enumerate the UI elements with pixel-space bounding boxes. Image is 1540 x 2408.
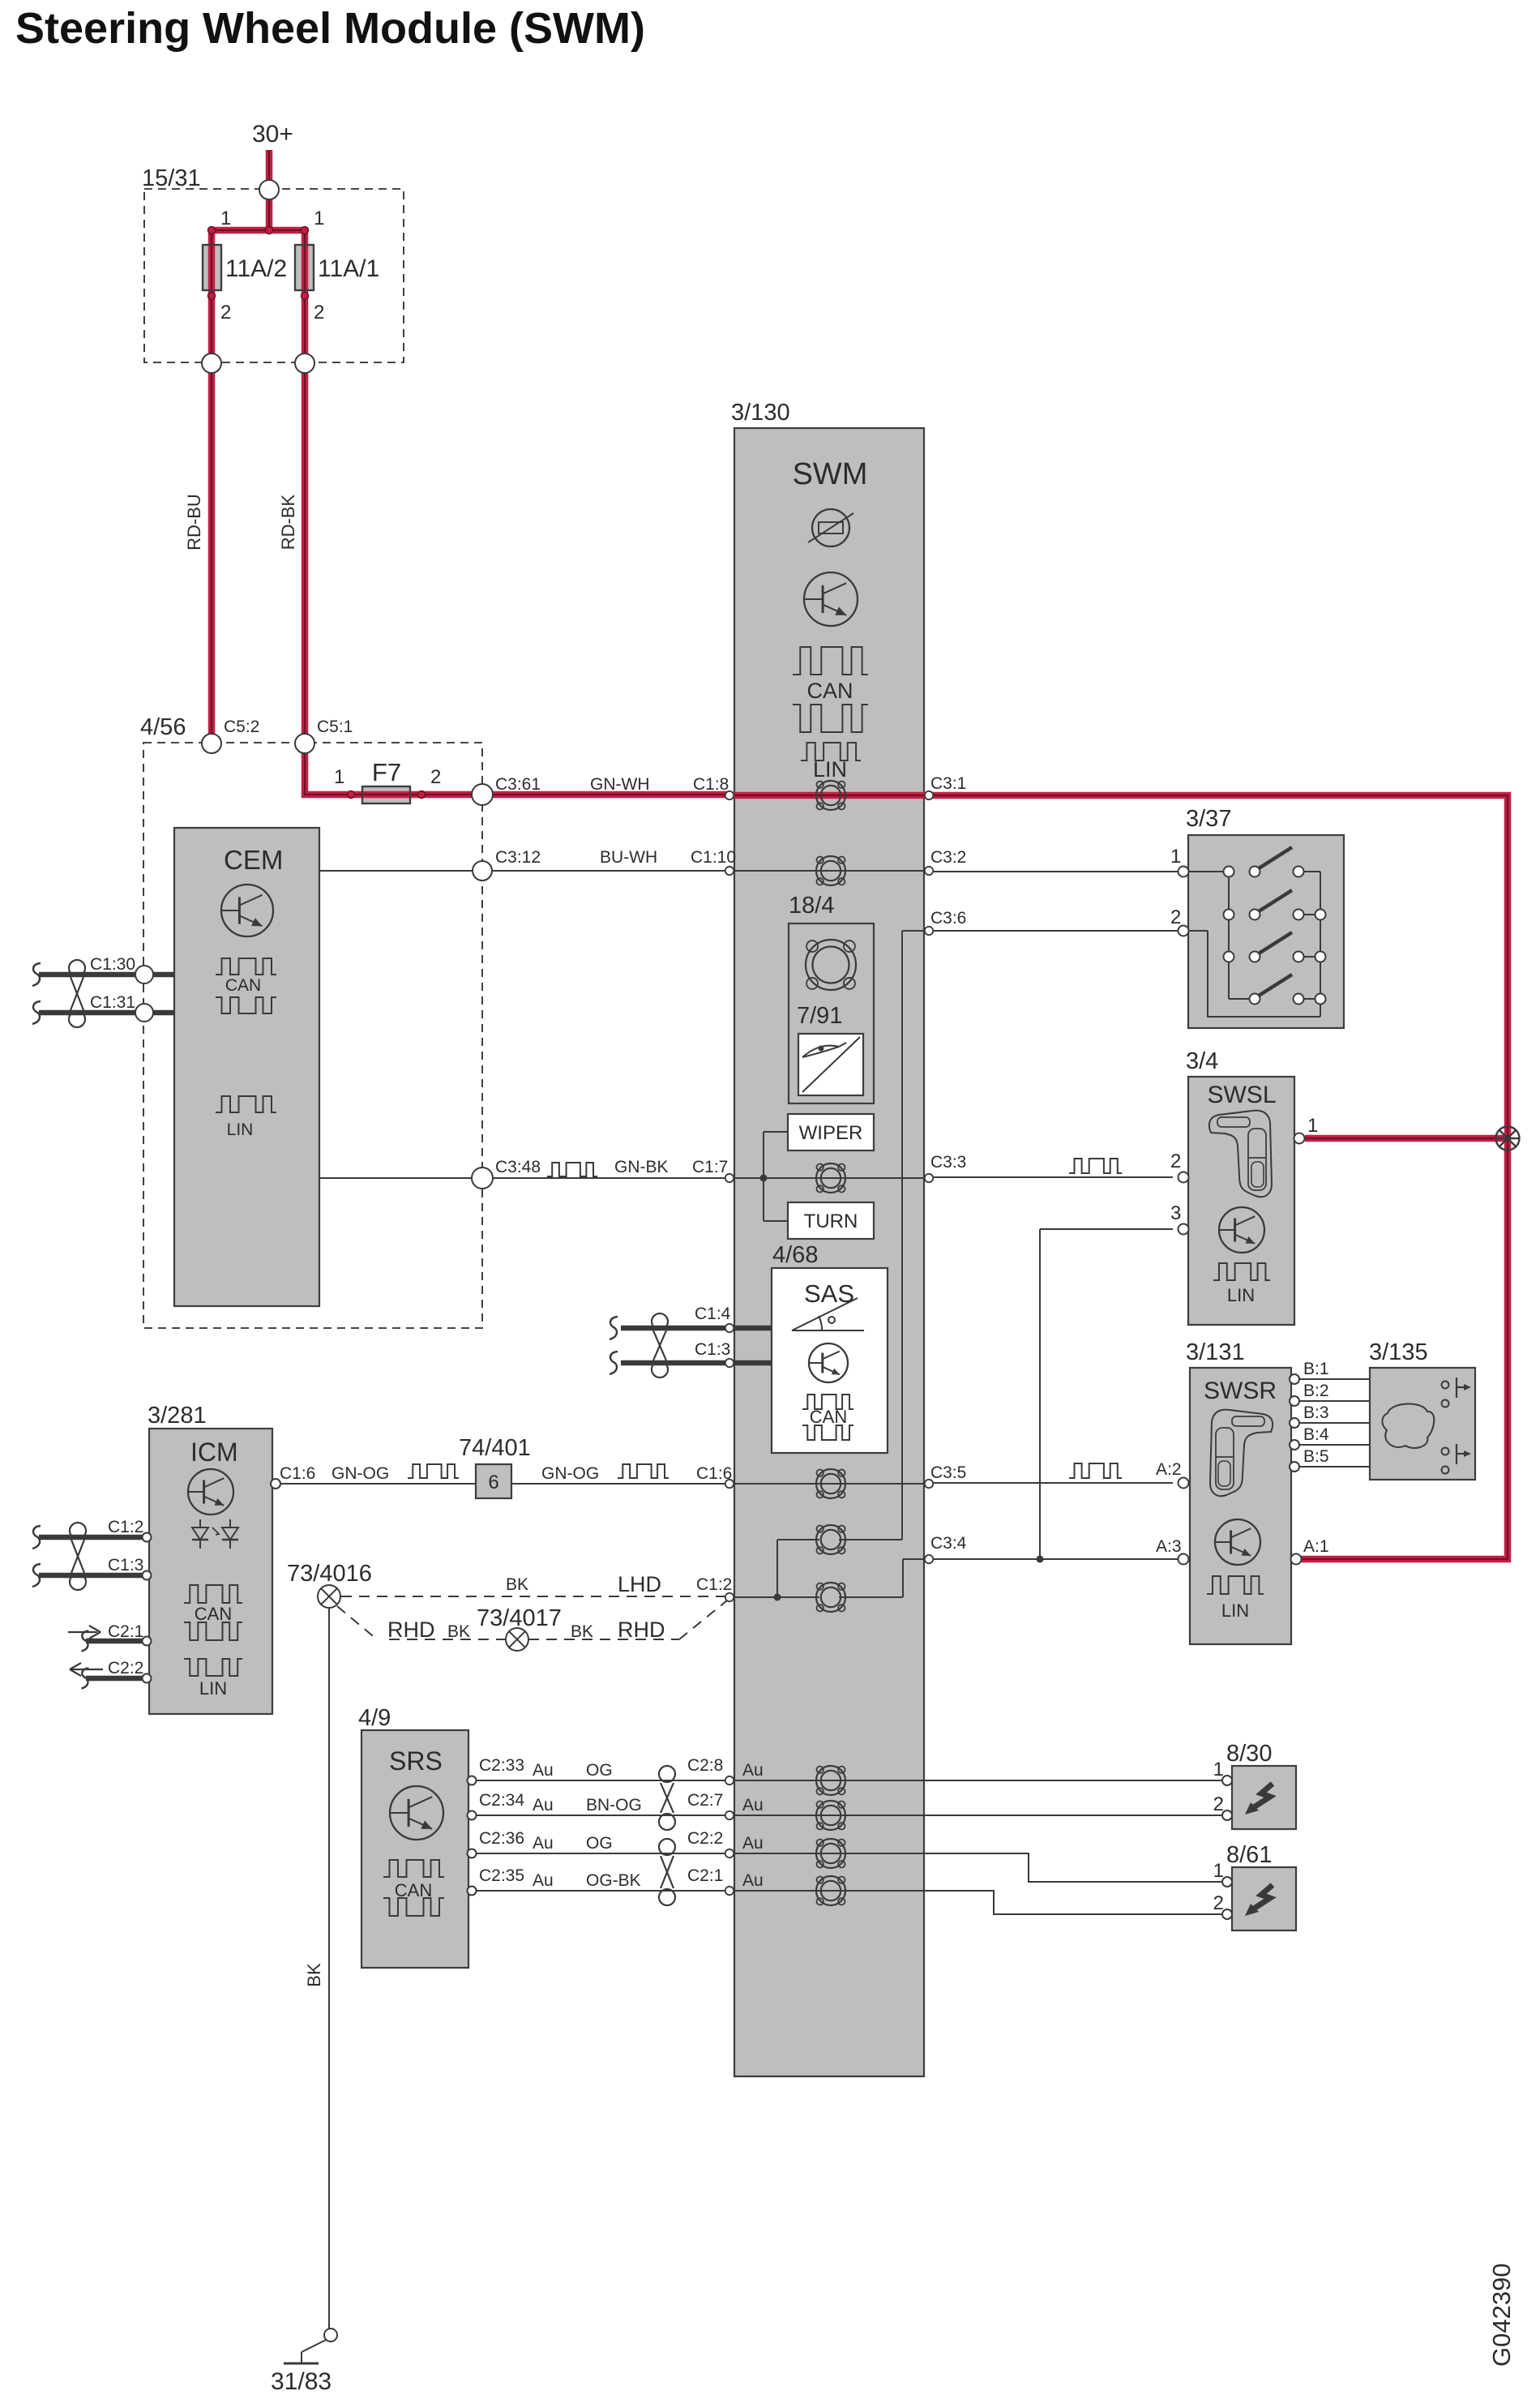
svg-text:C1:2: C1:2 [696,1575,732,1594]
svg-text:C3:1: C3:1 [930,774,966,793]
svg-text:GN-OG: GN-OG [332,1464,389,1483]
svg-text:LIN: LIN [199,1678,227,1699]
svg-text:RD-BU: RD-BU [184,494,204,551]
svg-text:2: 2 [220,302,231,323]
svg-text:B:3: B:3 [1303,1403,1329,1422]
svg-text:3/281: 3/281 [148,1403,207,1429]
svg-text:C5:1: C5:1 [317,718,353,736]
svg-text:C2:1: C2:1 [108,1622,143,1641]
svg-text:CAN: CAN [810,1407,847,1427]
svg-text:1: 1 [220,208,231,229]
svg-text:LIN: LIN [1227,1285,1255,1305]
svg-text:CAN: CAN [225,976,261,995]
svg-text:OG: OG [586,1834,613,1853]
svg-text:OG: OG [586,1761,613,1780]
svg-text:LHD: LHD [618,1572,661,1596]
svg-text:OG-BK: OG-BK [586,1871,641,1890]
svg-text:CAN: CAN [195,1604,232,1624]
svg-text:8/30: 8/30 [1226,1741,1272,1767]
svg-text:C3:4: C3:4 [930,1534,967,1553]
svg-text:3/130: 3/130 [731,400,790,426]
svg-text:C3:3: C3:3 [930,1153,966,1172]
svg-text:Steering Wheel Module (SWM): Steering Wheel Module (SWM) [15,4,645,53]
svg-text:SWM: SWM [793,457,868,491]
svg-text:C3:2: C3:2 [930,848,966,867]
svg-text:Au: Au [533,1796,554,1815]
svg-text:SAS: SAS [804,1279,854,1308]
svg-text:CEM: CEM [224,845,283,875]
svg-text:Au: Au [742,1834,764,1853]
svg-text:SWSL: SWSL [1207,1082,1276,1108]
svg-text:C3:12: C3:12 [495,848,541,867]
svg-text:3/37: 3/37 [1186,806,1231,832]
svg-text:C1:31: C1:31 [90,993,135,1012]
svg-text:C1:3: C1:3 [695,1340,730,1359]
svg-text:C3:6: C3:6 [930,909,966,928]
svg-text:A:3: A:3 [1156,1537,1182,1556]
svg-text:Au: Au [533,1871,554,1890]
svg-text:Au: Au [742,1796,764,1815]
svg-text:18/4: 18/4 [789,893,834,919]
svg-text:C2:36: C2:36 [479,1829,524,1848]
svg-text:1: 1 [314,208,324,229]
svg-text:3: 3 [1170,1202,1181,1224]
svg-text:2: 2 [1170,1150,1181,1172]
svg-text:BK: BK [571,1622,593,1641]
svg-text:74/401: 74/401 [459,1435,531,1461]
svg-text:RHD: RHD [387,1617,435,1642]
svg-text:30+: 30+ [252,121,293,148]
svg-text:C2:35: C2:35 [479,1866,524,1885]
svg-text:Au: Au [533,1834,554,1853]
svg-text:GN-OG: GN-OG [541,1464,599,1483]
svg-text:Au: Au [742,1871,764,1890]
svg-text:C1:4: C1:4 [695,1305,731,1323]
svg-text:C2:33: C2:33 [479,1756,524,1775]
svg-text:G042390: G042390 [1487,2263,1516,2367]
svg-text:F7: F7 [372,758,401,786]
svg-text:B:2: B:2 [1303,1382,1329,1400]
svg-text:BK: BK [304,1963,324,1987]
svg-text:73/4016: 73/4016 [287,1561,372,1587]
svg-text:BN-OG: BN-OG [586,1796,642,1815]
svg-text:BU-WH: BU-WH [600,848,657,867]
svg-text:C1:7: C1:7 [692,1158,728,1176]
svg-text:B:4: B:4 [1303,1425,1329,1444]
svg-text:1: 1 [1170,846,1181,868]
svg-text:1: 1 [334,766,344,788]
svg-text:2: 2 [1213,1793,1224,1815]
svg-text:GN-BK: GN-BK [614,1158,669,1176]
svg-text:C1:6: C1:6 [280,1464,315,1483]
svg-text:LIN: LIN [813,757,847,782]
svg-text:31/83: 31/83 [271,2368,332,2395]
svg-text:B:1: B:1 [1303,1360,1329,1378]
svg-text:11A/1: 11A/1 [318,255,379,282]
svg-text:1: 1 [1307,1115,1318,1137]
svg-text:CAN: CAN [806,679,853,703]
svg-text:2: 2 [314,302,324,323]
svg-text:C3:48: C3:48 [495,1158,541,1176]
svg-text:6: 6 [488,1472,498,1493]
svg-text:C3:61: C3:61 [495,775,541,794]
svg-text:3/4: 3/4 [1186,1048,1218,1074]
svg-text:RD-BK: RD-BK [278,494,298,550]
svg-text:C1:10: C1:10 [691,848,736,867]
svg-text:BK: BK [506,1575,528,1594]
svg-text:2: 2 [1170,906,1181,928]
svg-text:C1:30: C1:30 [90,955,135,974]
svg-text:Au: Au [533,1761,554,1780]
svg-text:C1:2: C1:2 [108,1518,143,1536]
svg-text:2: 2 [1213,1892,1224,1914]
svg-text:SWSR: SWSR [1204,1378,1277,1404]
svg-text:15/31: 15/31 [142,165,201,191]
svg-text:1: 1 [1213,1860,1224,1882]
svg-text:LIN: LIN [1221,1600,1249,1621]
svg-text:3/131: 3/131 [1186,1339,1245,1365]
svg-text:GN-WH: GN-WH [590,775,649,794]
svg-text:SRS: SRS [389,1746,443,1776]
svg-text:WIPER: WIPER [799,1122,863,1144]
svg-text:4/9: 4/9 [358,1705,391,1731]
svg-text:A:1: A:1 [1303,1537,1329,1556]
svg-text:4/56: 4/56 [140,714,186,740]
svg-text:7/91: 7/91 [797,1003,842,1029]
svg-text:ICM: ICM [190,1438,238,1467]
svg-text:BK: BK [447,1622,470,1641]
svg-text:C2:2: C2:2 [108,1659,143,1677]
svg-text:73/4017: 73/4017 [477,1605,562,1631]
svg-text:3/135: 3/135 [1369,1339,1428,1365]
svg-text:LIN: LIN [227,1120,254,1139]
svg-text:CAN: CAN [395,1880,432,1900]
svg-text:2: 2 [430,766,441,788]
svg-text:C2:1: C2:1 [687,1866,723,1885]
svg-text:C2:2: C2:2 [687,1829,723,1848]
svg-text:8/61: 8/61 [1226,1842,1272,1868]
svg-text:Au: Au [742,1761,764,1780]
svg-text:RHD: RHD [618,1617,665,1642]
svg-text:B:5: B:5 [1303,1447,1329,1466]
svg-text:C2:34: C2:34 [479,1791,524,1810]
svg-text:11A/2: 11A/2 [225,255,287,282]
svg-text:C1:3: C1:3 [108,1556,143,1575]
svg-text:C3:5: C3:5 [930,1463,966,1482]
svg-text:C1:6: C1:6 [696,1464,732,1483]
svg-text:C1:8: C1:8 [693,775,729,794]
svg-text:4/68: 4/68 [772,1242,818,1268]
svg-text:A:2: A:2 [1156,1460,1182,1479]
svg-text:1: 1 [1213,1759,1224,1780]
svg-text:TURN: TURN [804,1210,858,1232]
svg-text:C2:7: C2:7 [687,1791,723,1810]
svg-text:C2:8: C2:8 [687,1756,723,1775]
svg-text:C5:2: C5:2 [224,718,259,736]
